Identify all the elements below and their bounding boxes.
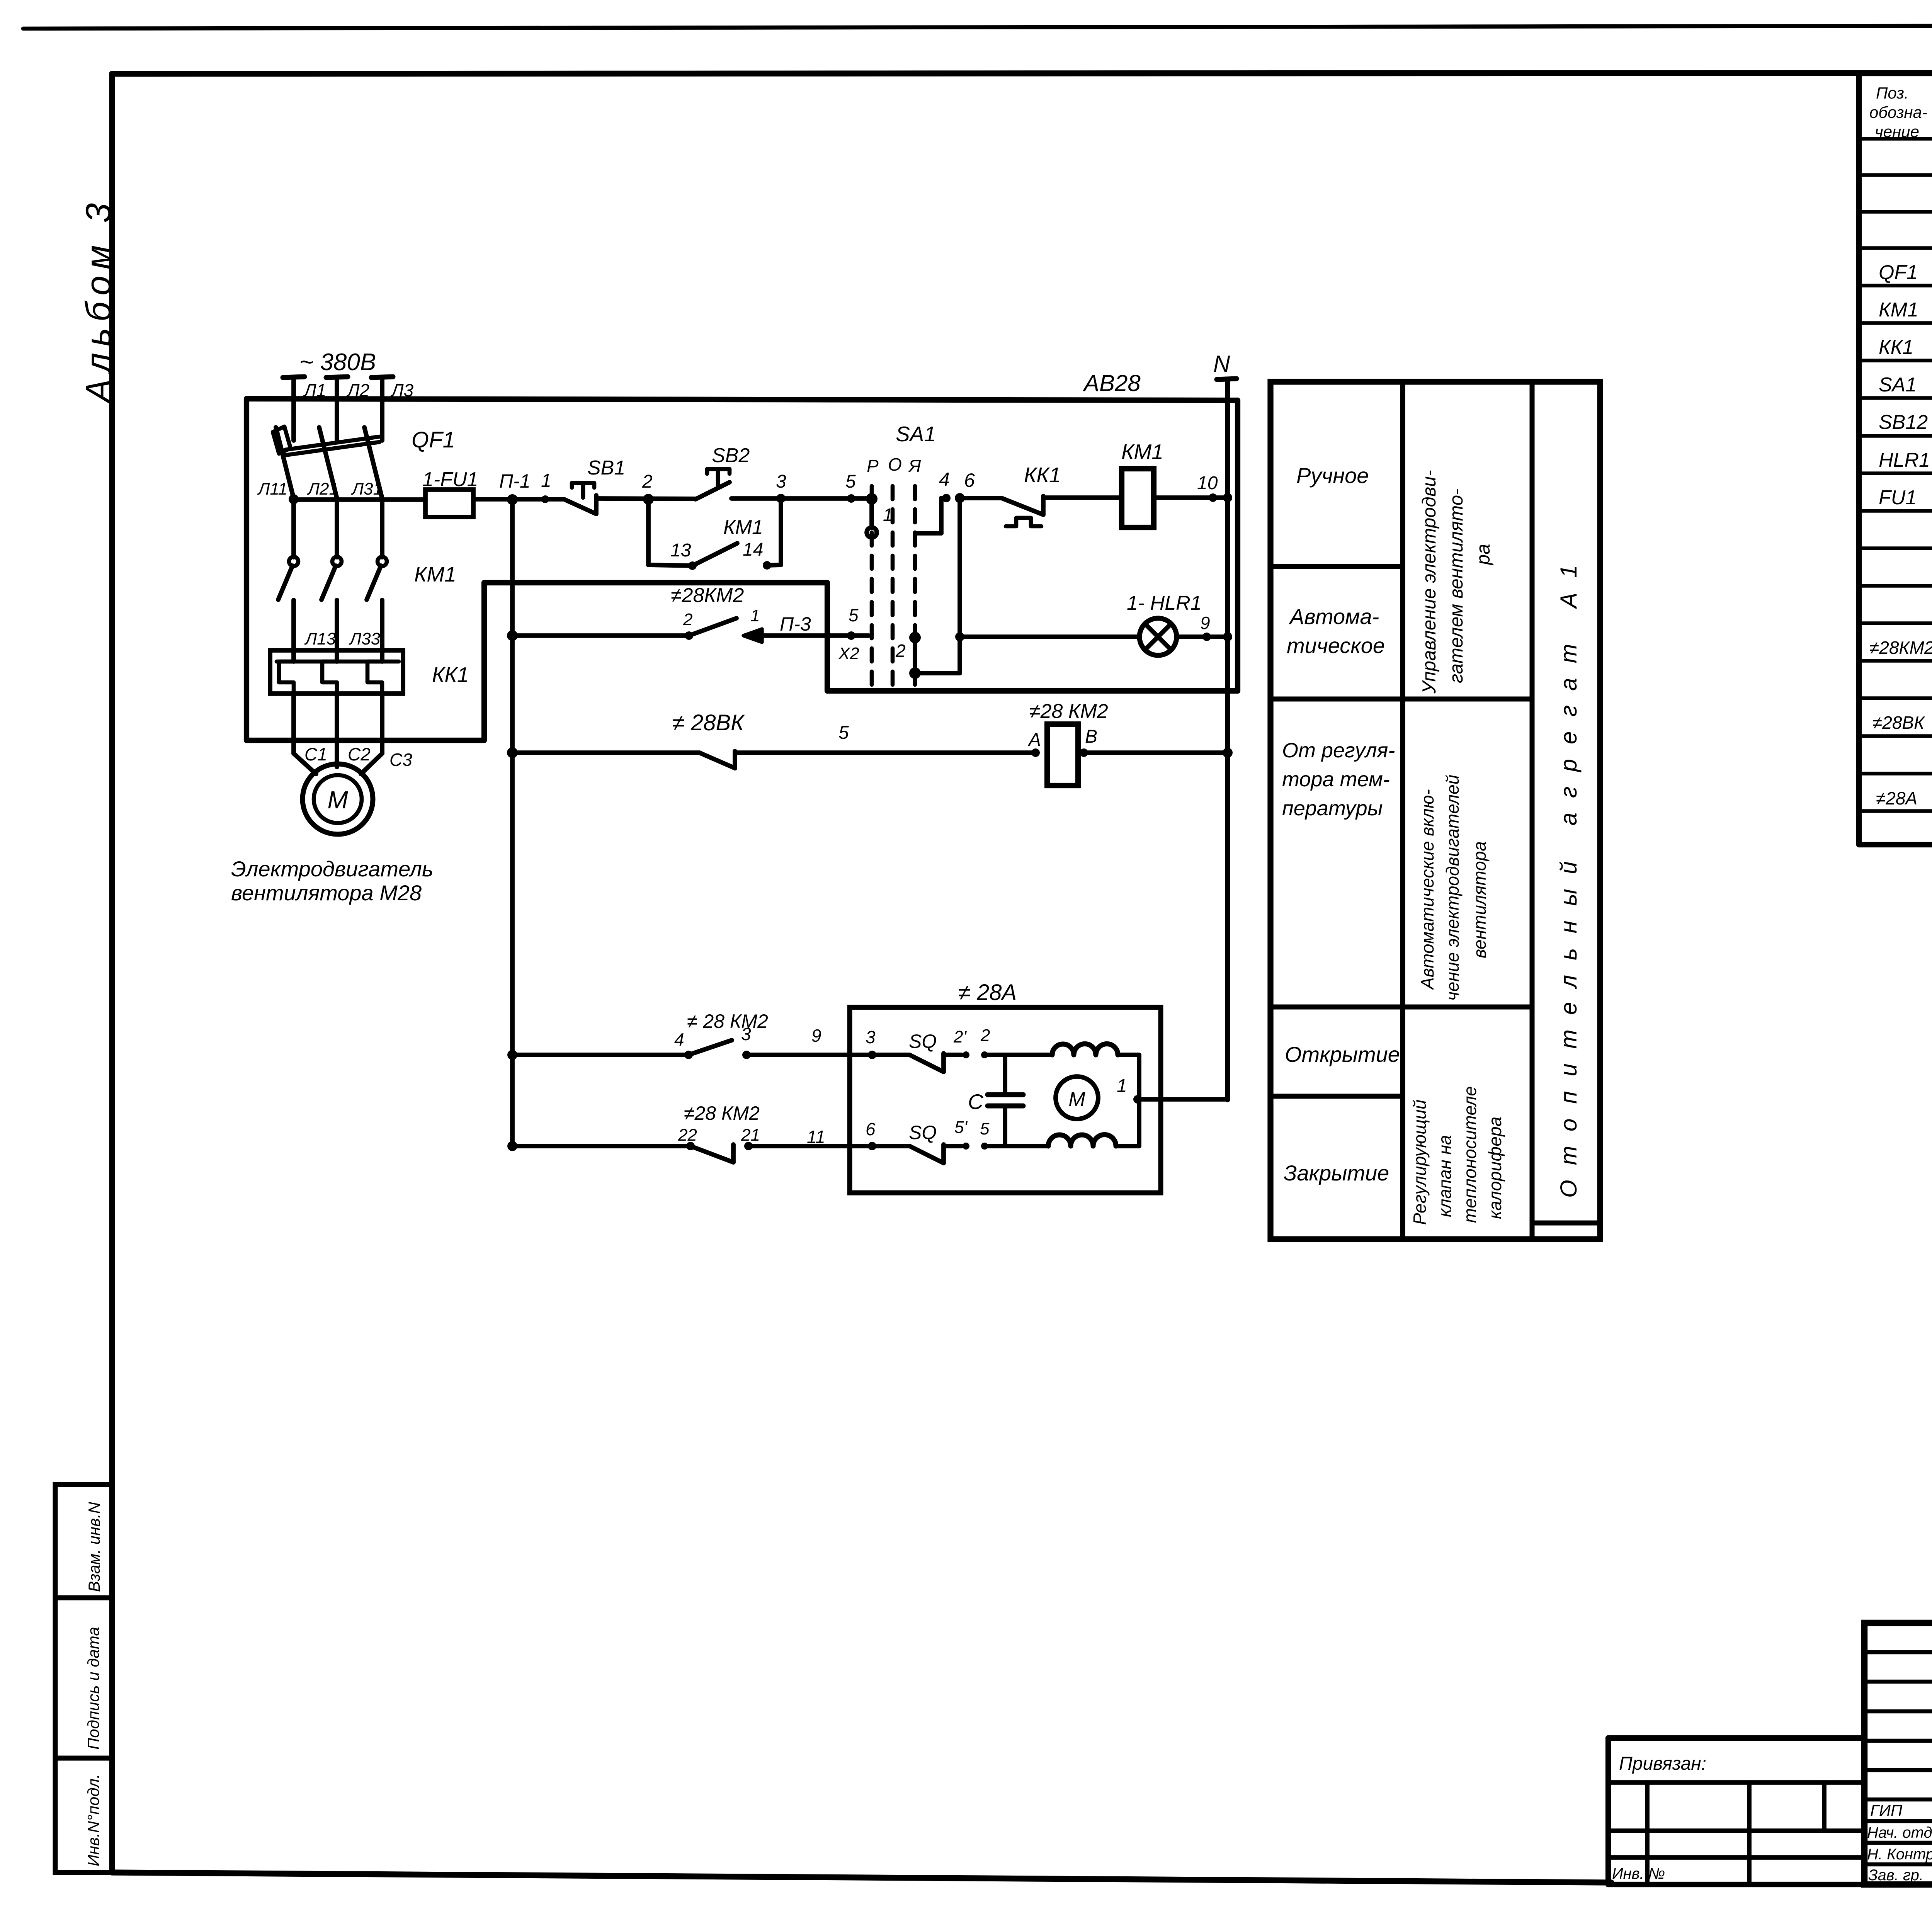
svg-text:SВ1: SВ1 (587, 457, 625, 479)
svg-text:П-3: П-3 (780, 613, 811, 635)
svg-text:КМ1: КМ1 (723, 516, 763, 539)
wire jumper contact 2 to lamp branch (915, 498, 964, 673)
contactor 28KM2 contact 4-3 (674, 1010, 768, 1059)
function table column Регулирующий клапан (1410, 1086, 1505, 1225)
svg-text:тора тем-: тора тем- (1282, 768, 1390, 791)
svg-text:Альбом 3: Альбом 3 (79, 197, 118, 405)
svg-text:SQ: SQ (909, 1122, 937, 1143)
svg-text:2: 2 (683, 610, 692, 629)
svg-text:Взам. инв.N: Взам. инв.N (85, 1502, 103, 1592)
svg-text:~ 380В: ~ 380В (299, 349, 376, 376)
node 3 (776, 471, 786, 503)
winding upper of valve motor (1052, 1044, 1139, 1100)
phase terminals L1 L2 L3 (283, 377, 414, 440)
svg-text:С3: С3 (389, 750, 412, 770)
svg-text:Подпись и дата: Подпись и дата (84, 1627, 102, 1750)
contactor coil KM1 (1121, 440, 1213, 527)
motor M28 (303, 764, 373, 834)
contactor 28KM2 auxiliary contact 2-1 (671, 584, 760, 640)
actuator box 28A (850, 980, 1161, 1193)
node 6 (955, 469, 975, 503)
svg-text:6: 6 (866, 1119, 876, 1139)
svg-text:ра: ра (1473, 544, 1494, 566)
svg-text:1- HLR1: 1- HLR1 (1127, 592, 1202, 614)
svg-text:5': 5' (954, 1118, 968, 1137)
function table column Отопительный агрегат А1 (1556, 550, 1582, 1198)
svg-text:обозна-: обозна- (1869, 103, 1927, 121)
parts row QF1 (1879, 259, 1932, 284)
svg-text:С2: С2 (348, 744, 371, 764)
svg-text:2: 2 (642, 471, 653, 492)
node 2 (642, 471, 654, 505)
svg-text:Автоматические вклю-: Автоматические вклю- (1417, 789, 1437, 990)
wire control row 3 (507, 747, 699, 758)
svg-text:Нач. отд.: Нач. отд. (1867, 1824, 1932, 1841)
svg-text:1-FU1: 1-FU1 (422, 468, 478, 491)
svg-text:SА1: SА1 (1879, 374, 1917, 396)
svg-text:N: N (1213, 351, 1230, 377)
svg-text:≠28 КМ2: ≠28 КМ2 (1029, 700, 1108, 723)
capacitor C (968, 1055, 1023, 1146)
svg-text:Открытие: Открытие (1285, 1042, 1400, 1066)
svg-text:Управление электродви-: Управление электродви- (1419, 470, 1440, 694)
svg-text:2': 2' (953, 1027, 967, 1046)
svg-text:22: 22 (678, 1126, 697, 1145)
node 9 (1200, 613, 1232, 641)
parts row SB12 (1879, 409, 1932, 434)
wire N conductor (1225, 379, 1230, 1100)
contactor KM1 main contacts (278, 557, 456, 600)
svg-text:X2: X2 (838, 644, 859, 663)
wire close-command row (507, 1141, 690, 1151)
wire phase stubs below QF1 (289, 494, 382, 557)
lamp HLR1 (1127, 592, 1207, 655)
node P-1 (499, 470, 531, 505)
svg-text:9: 9 (811, 1026, 821, 1046)
left margin stamp boxes (55, 1485, 112, 1872)
node 6 actuator (866, 1119, 876, 1150)
svg-text:Инв.N°подл.: Инв.N°подл. (84, 1774, 102, 1866)
fuse FU1 (422, 468, 478, 517)
svg-text:Инв. №: Инв. № (1612, 1865, 1665, 1882)
valve motor M (1056, 1077, 1098, 1119)
SA1 contact 1 on position P (866, 493, 893, 537)
svg-text:Регулирующий: Регулирующий (1410, 1100, 1430, 1225)
svg-text:Л21: Л21 (307, 480, 338, 498)
svg-text:КМ1: КМ1 (414, 562, 456, 586)
album label (79, 197, 118, 405)
supply label ~380V (299, 349, 376, 376)
svg-text:4: 4 (939, 469, 950, 490)
svg-text:Л2: Л2 (346, 380, 369, 400)
svg-text:гателем вентилято-: гателем вентилято- (1446, 489, 1467, 683)
contactor coil 28KM2 (1027, 700, 1233, 786)
parts table header (1869, 84, 1932, 141)
svg-text:Л33: Л33 (349, 629, 381, 648)
cabinet label AB28 (1083, 370, 1141, 396)
node 1 actuator output (1117, 1076, 1228, 1104)
pushbutton SB2 (696, 444, 750, 499)
function table row labels (1282, 463, 1400, 1185)
svg-text:Закрытие: Закрытие (1284, 1161, 1389, 1185)
svg-text:≠28А: ≠28А (1876, 788, 1917, 808)
parts row 28A (1876, 786, 1932, 809)
svg-text:Л3: Л3 (390, 380, 414, 400)
svg-text:SВ12: SВ12 (1879, 411, 1928, 434)
svg-text:чение: чение (1875, 122, 1919, 141)
svg-text:21: 21 (741, 1126, 760, 1145)
svg-text:Н. Контр.: Н. Контр. (1867, 1846, 1932, 1863)
svg-text:QF1: QF1 (1879, 261, 1918, 284)
svg-text:теплоносителе: теплоносителе (1460, 1086, 1480, 1223)
thermal relay KK1 heaters (270, 650, 469, 694)
svg-text:Поз.: Поз. (1876, 84, 1909, 102)
svg-text:Электродвигатель: Электродвигатель (231, 857, 433, 881)
node 1 (541, 471, 551, 503)
node 10 (1197, 473, 1232, 502)
wire P-3 with arrow (743, 613, 851, 642)
svg-text:5: 5 (845, 471, 856, 492)
svg-text:5: 5 (838, 723, 849, 743)
wire phase stubs below KM1 (294, 600, 382, 662)
svg-text:ГИП: ГИП (1870, 1801, 1903, 1820)
svg-text:SА1: SА1 (896, 422, 936, 446)
function table grid (1270, 382, 1600, 1239)
SA1 contact 2 on position Ya (895, 632, 921, 679)
nodes 2pr 2 (953, 1026, 1052, 1058)
svg-text:Зав. гр.: Зав. гр. (1868, 1867, 1923, 1884)
parts row SA1 (1879, 371, 1932, 397)
svg-text:≠28КМ2: ≠28КМ2 (1869, 638, 1932, 658)
svg-text:клапан на: клапан на (1435, 1135, 1455, 1217)
svg-text:6: 6 (964, 469, 975, 491)
svg-text:В: В (1085, 726, 1097, 747)
wire control row 2 (507, 630, 689, 641)
wire 9 into actuator (747, 1026, 872, 1055)
svg-text:С1: С1 (304, 744, 327, 764)
svg-text:АВ28: АВ28 (1083, 370, 1141, 396)
contactor 28KM2 contact 22-21 (678, 1102, 760, 1162)
svg-text:≠28КМ2: ≠28КМ2 (671, 584, 744, 607)
winding lower of valve motor (1048, 1099, 1139, 1146)
svg-text:1: 1 (541, 471, 551, 491)
node 3 actuator (866, 1027, 876, 1059)
svg-text:1: 1 (883, 505, 893, 525)
wire left feeder (510, 500, 515, 1146)
svg-text:С: С (968, 1090, 984, 1114)
node 4 (939, 469, 951, 502)
svg-text:Я: Я (908, 456, 921, 476)
svg-text:П-1: П-1 (499, 470, 531, 492)
cabinet AB28 outline (247, 399, 1238, 740)
temperature sensor contact 28VK (672, 710, 1036, 768)
svg-text:≠ 28ВК: ≠ 28ВК (672, 710, 745, 735)
wire 11 into actuator (748, 1127, 872, 1147)
svg-text:Ручное: Ручное (1296, 463, 1369, 488)
selector switch SA1 (867, 422, 936, 691)
svg-text:1: 1 (1117, 1076, 1127, 1096)
svg-text:≠ 28 КМ2: ≠ 28 КМ2 (687, 1010, 768, 1032)
svg-text:4: 4 (674, 1029, 684, 1049)
svg-text:3: 3 (866, 1027, 876, 1047)
svg-text:2: 2 (895, 641, 906, 661)
pushbutton SB1 (566, 457, 625, 514)
wire SA1 position Ya jumper to node 4 (917, 498, 941, 533)
svg-text:SQ: SQ (909, 1031, 937, 1052)
svg-text:вентилятора: вентилятора (1469, 841, 1490, 958)
wire control row 1 (294, 498, 872, 500)
sheet top edge line (23, 25, 1932, 29)
svg-text:SВ2: SВ2 (712, 444, 750, 467)
motor caption (231, 857, 433, 905)
svg-text:Л13: Л13 (304, 629, 336, 648)
svg-text:FU1: FU1 (1879, 486, 1917, 509)
svg-text:3: 3 (741, 1024, 751, 1044)
svg-text:вентилятора М28: вентилятора М28 (231, 881, 422, 905)
nodes 5pr 5 (954, 1118, 1048, 1150)
svg-text:пературы: пературы (1282, 797, 1383, 820)
svg-text:5: 5 (849, 605, 859, 625)
thermal relay KK1 contact (960, 463, 1122, 526)
title block signature rows (1867, 1801, 1932, 1884)
parts list table grid (1859, 73, 1932, 845)
svg-text:Л31: Л31 (351, 480, 383, 498)
svg-text:От регуля-: От регуля- (1282, 739, 1395, 762)
svg-text:Л1: Л1 (303, 380, 326, 400)
svg-text:КК1: КК1 (1024, 463, 1061, 487)
node N terminal (1213, 351, 1236, 379)
svg-text:13: 13 (670, 540, 691, 561)
svg-text:Привязан:: Привязан: (1619, 1753, 1706, 1774)
wire motor leads C1 C2 C3 (294, 694, 412, 774)
svg-text:11: 11 (807, 1127, 825, 1147)
wire open-command row (507, 1050, 689, 1060)
svg-text:А: А (1027, 730, 1041, 750)
svg-text:3: 3 (776, 471, 786, 492)
svg-text:КК1: КК1 (432, 663, 469, 687)
svg-text:М: М (327, 786, 348, 814)
svg-text:QF1: QF1 (412, 427, 455, 452)
svg-text:КК1: КК1 (1879, 336, 1913, 359)
svg-text:тическое: тическое (1287, 633, 1385, 658)
svg-text:14: 14 (743, 539, 763, 560)
node 5 (845, 471, 856, 503)
svg-text:О: О (888, 454, 902, 474)
parts row KM1 (1879, 296, 1932, 322)
svg-text:≠28 КМ2: ≠28 КМ2 (684, 1102, 760, 1124)
parts row 28KM2 (1869, 636, 1932, 696)
svg-text:Отопительный агрегат А1: Отопительный агрегат А1 (1556, 550, 1582, 1198)
svg-text:2: 2 (980, 1026, 990, 1045)
limit switch SQ upper (872, 1031, 961, 1072)
svg-text:≠28ВК: ≠28ВК (1872, 713, 1925, 733)
title block stamp grid (1864, 1623, 1932, 1884)
svg-text:калорифера: калорифера (1485, 1117, 1505, 1219)
limit switch SQ lower (872, 1122, 961, 1163)
svg-text:КМ1: КМ1 (1121, 440, 1163, 464)
svg-text:КМ1: КМ1 (1879, 299, 1918, 321)
svg-text:10: 10 (1197, 473, 1218, 493)
parts row KK1 (1879, 334, 1932, 359)
node X2-5 (838, 605, 869, 663)
wire lamp branch (960, 634, 1140, 639)
parts row FU1 (1879, 484, 1932, 510)
parts row HLR1 (1879, 447, 1932, 472)
parts row 28VK (1872, 713, 1932, 771)
svg-text:М: М (1068, 1088, 1085, 1111)
svg-text:1: 1 (750, 606, 760, 625)
svg-text:HLR1: HLR1 (1879, 449, 1930, 471)
svg-text:5: 5 (980, 1119, 990, 1138)
title block left extension (1608, 1738, 1864, 1884)
contactor KM1 auxiliary contact 13-14 (648, 498, 781, 570)
svg-text:чение электродвигателей: чение электродвигателей (1442, 775, 1463, 1001)
svg-text:Автома-: Автома- (1289, 604, 1379, 629)
svg-text:9: 9 (1200, 613, 1210, 633)
svg-text:Р: Р (867, 456, 879, 476)
circuit breaker QF1 (257, 427, 455, 498)
function table column Автоматическое включение электродвигателей вентилятора (1417, 775, 1490, 1001)
svg-text:Л11: Л11 (257, 480, 287, 498)
function table column Управление электродвигателем вентилятора (1419, 470, 1494, 694)
svg-text:≠ 28А: ≠ 28А (958, 980, 1017, 1005)
